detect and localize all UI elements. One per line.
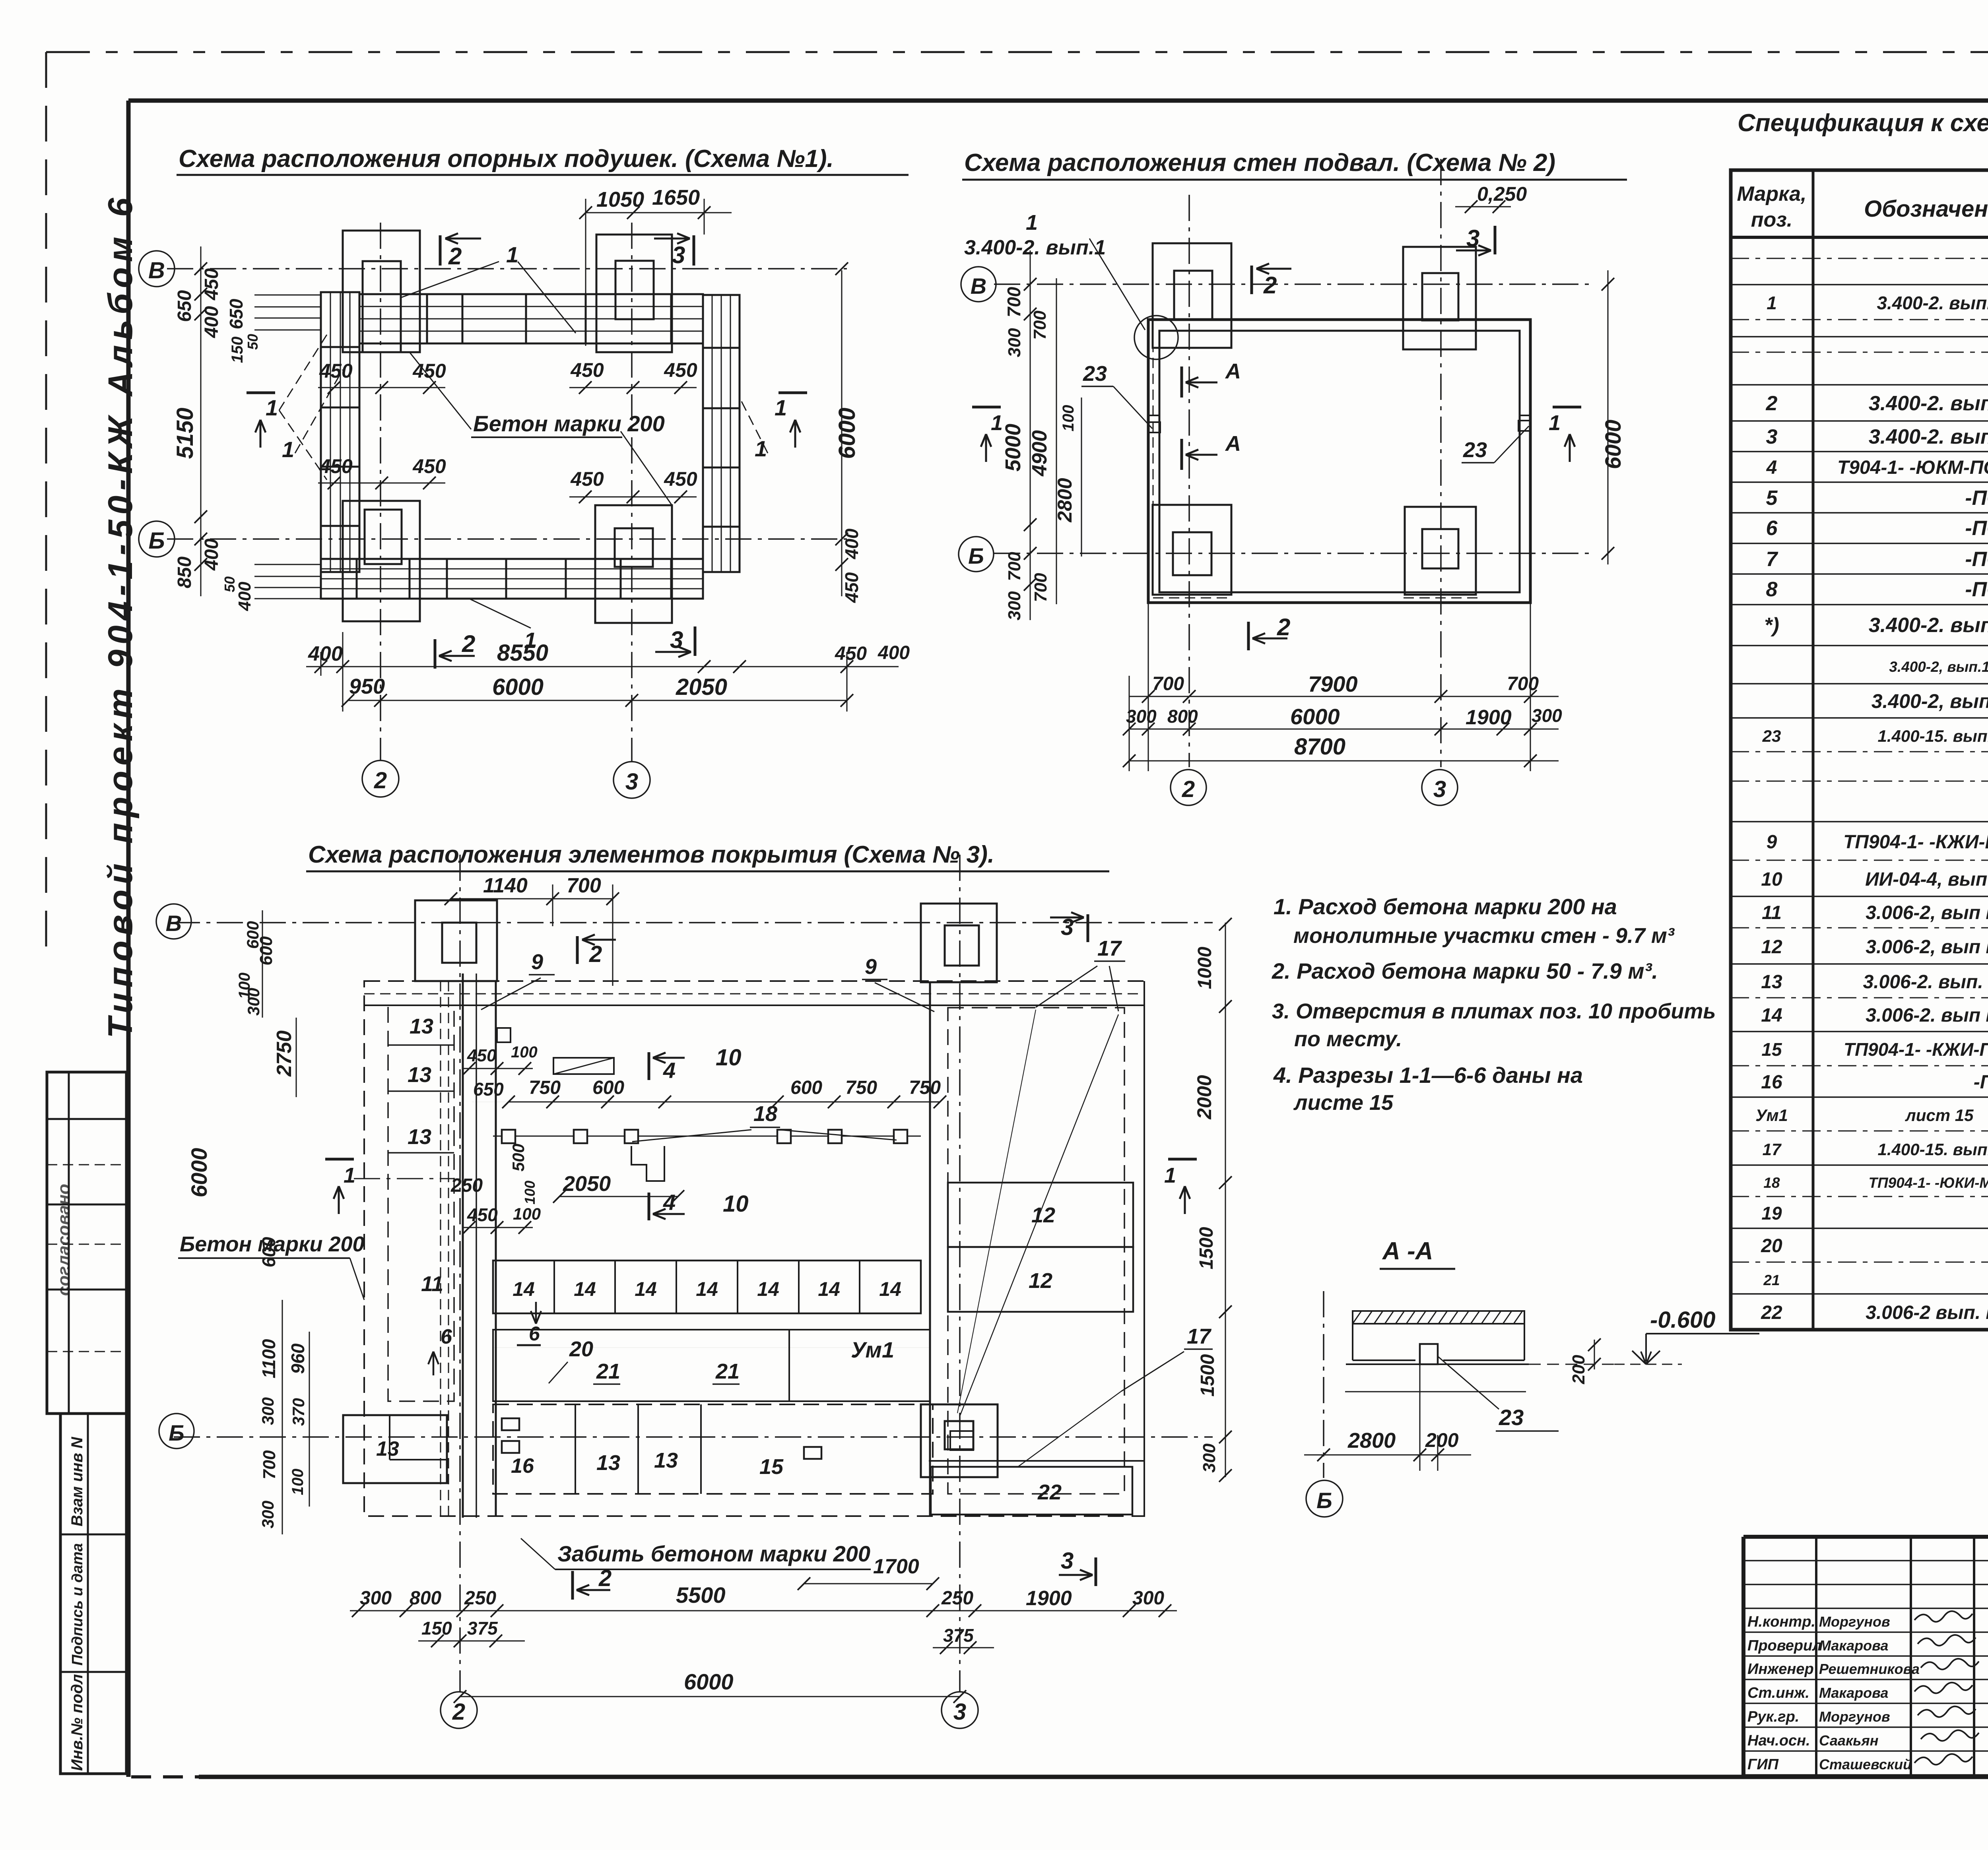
svg-text:14: 14 xyxy=(635,1278,657,1300)
svg-text:300: 300 xyxy=(1005,591,1024,621)
svg-text:3.400-2. вып.1: 3.400-2. вып.1 xyxy=(1869,425,1988,448)
svg-text:23: 23 xyxy=(1762,727,1781,745)
outer dashed trim border xyxy=(46,51,1988,53)
svg-text:8: 8 xyxy=(1766,578,1778,601)
svg-text:-ПС2-1-3: -ПС2-1-3 xyxy=(1965,548,1988,571)
svg-text:20: 20 xyxy=(569,1337,593,1361)
svg-text:400: 400 xyxy=(201,539,222,571)
svg-text:300: 300 xyxy=(244,988,263,1016)
svg-text:1: 1 xyxy=(775,395,787,420)
svg-text:450: 450 xyxy=(841,572,862,603)
svg-text:ТП904-1- -ЮКИ-МС4: ТП904-1- -ЮКИ-МС4 xyxy=(1868,1175,1988,1191)
svg-text:Решетникова: Решетникова xyxy=(1819,1661,1920,1677)
svg-text:2: 2 xyxy=(374,768,387,793)
svg-text:650: 650 xyxy=(174,290,195,322)
svg-text:1500: 1500 xyxy=(1196,1227,1217,1269)
svg-text:150: 150 xyxy=(421,1618,452,1639)
svg-text:450: 450 xyxy=(319,455,353,477)
svg-text:300: 300 xyxy=(1005,328,1024,357)
svg-text:3: 3 xyxy=(672,242,685,268)
svg-text:750: 750 xyxy=(529,1077,561,1098)
svg-text:12: 12 xyxy=(1029,1269,1052,1293)
svg-text:6000: 6000 xyxy=(186,1148,212,1198)
svg-text:10: 10 xyxy=(723,1191,749,1217)
svg-text:700: 700 xyxy=(1152,673,1184,694)
svg-text:300: 300 xyxy=(258,1501,277,1528)
svg-text:16: 16 xyxy=(511,1454,534,1478)
svg-text:5500: 5500 xyxy=(676,1582,726,1608)
svg-text:1: 1 xyxy=(1549,411,1561,435)
svg-text:19: 19 xyxy=(1761,1203,1782,1224)
svg-text:-ПС2-1-4: -ПС2-1-4 xyxy=(1965,578,1988,601)
svg-text:1900: 1900 xyxy=(1466,706,1512,729)
svg-text:17: 17 xyxy=(1187,1325,1212,1348)
svg-text:9: 9 xyxy=(1767,832,1777,853)
svg-text:Спецификация к схемам распо: Спецификация к схемам расположения элеме… xyxy=(1738,109,1988,137)
svg-text:800: 800 xyxy=(410,1588,441,1609)
svg-text:Забить бетоном марки 200: Забить бетоном марки 200 xyxy=(557,1541,870,1566)
svg-text:3.006-2 вып. II-2: 3.006-2 вып. II-2 xyxy=(1866,1302,1988,1323)
svg-text:23: 23 xyxy=(1499,1405,1524,1430)
svg-text:450: 450 xyxy=(412,360,446,382)
svg-text:600: 600 xyxy=(790,1077,822,1098)
svg-text:3.400-2. вып.1: 3.400-2. вып.1 xyxy=(964,236,1106,259)
svg-text:15: 15 xyxy=(1761,1039,1782,1060)
svg-text:250: 250 xyxy=(464,1588,496,1609)
svg-text:3.400-2. вып.1: 3.400-2. вып.1 xyxy=(1869,614,1988,637)
svg-text:3.006-2, вып II-2: 3.006-2, вып II-2 xyxy=(1866,937,1988,958)
svg-text:Взам инв N: Взам инв N xyxy=(68,1437,86,1526)
svg-text:200: 200 xyxy=(1569,1355,1588,1385)
svg-text:8700: 8700 xyxy=(1294,734,1345,760)
svg-text:650: 650 xyxy=(226,299,247,329)
svg-text:2: 2 xyxy=(448,243,462,270)
svg-text:6: 6 xyxy=(1766,517,1778,540)
main drawing frame xyxy=(128,99,1988,103)
svg-text:12: 12 xyxy=(1761,937,1782,958)
svg-text:Бетон марки 200: Бетон марки 200 xyxy=(473,411,665,436)
svg-text:поз.: поз. xyxy=(1751,208,1793,231)
svg-text:6: 6 xyxy=(441,1325,452,1348)
svg-text:0,250: 0,250 xyxy=(1477,183,1527,205)
svg-text:14: 14 xyxy=(513,1278,535,1300)
svg-text:700: 700 xyxy=(1507,673,1539,694)
svg-text:1000: 1000 xyxy=(1194,946,1215,989)
svg-text:16: 16 xyxy=(1761,1072,1782,1093)
svg-text:100: 100 xyxy=(1060,405,1077,432)
svg-text:2750: 2750 xyxy=(273,1030,296,1077)
svg-text:1. Расход бетона марки 200: 1. Расход бетона марки 200 на xyxy=(1274,894,1617,919)
svg-text:Схема расположения опорных: Схема расположения опорных подушек. (Схе… xyxy=(179,145,834,173)
svg-text:1100: 1100 xyxy=(258,1339,279,1378)
svg-text:3.400-2. вып.1: 3.400-2. вып.1 xyxy=(1877,293,1988,313)
svg-text:6: 6 xyxy=(529,1323,540,1345)
svg-text:750: 750 xyxy=(909,1077,941,1098)
svg-text:3: 3 xyxy=(625,769,638,795)
svg-text:2: 2 xyxy=(462,630,475,657)
svg-text:1: 1 xyxy=(266,395,278,420)
svg-text:13: 13 xyxy=(596,1451,620,1475)
svg-text:21: 21 xyxy=(1763,1272,1780,1288)
svg-text:1: 1 xyxy=(506,242,518,267)
svg-text:22: 22 xyxy=(1761,1302,1782,1323)
svg-text:100: 100 xyxy=(511,1043,538,1061)
svg-text:15: 15 xyxy=(759,1455,784,1479)
svg-text:ТП904-1- -КЖИ-Р1СБ: ТП904-1- -КЖИ-Р1СБ xyxy=(1843,832,1988,853)
svg-text:3.400-2. вып.1: 3.400-2. вып.1 xyxy=(1869,392,1988,415)
svg-text:3: 3 xyxy=(1061,1548,1074,1574)
svg-text:13: 13 xyxy=(1761,972,1782,993)
svg-text:4: 4 xyxy=(663,1190,676,1215)
svg-text:400: 400 xyxy=(235,582,254,611)
svg-text:1.400-15. вып.1: 1.400-15. вып.1 xyxy=(1877,727,1988,745)
svg-text:11: 11 xyxy=(421,1272,443,1296)
svg-text:370: 370 xyxy=(289,1398,308,1426)
svg-text:8550: 8550 xyxy=(497,640,548,666)
svg-text:13: 13 xyxy=(410,1014,433,1038)
svg-text:450: 450 xyxy=(319,360,353,382)
svg-text:10: 10 xyxy=(1761,869,1782,890)
svg-text:2: 2 xyxy=(598,1565,612,1591)
svg-text:Инв.№ подл: Инв.№ подл xyxy=(68,1674,86,1771)
svg-text:ТП904-1- -КЖИ-П7-3-1: ТП904-1- -КЖИ-П7-3-1 xyxy=(1844,1039,1988,1060)
svg-text:лист 15: лист 15 xyxy=(1905,1106,1974,1125)
svg-text:Т904-1- -ЮКМ-ПС1-1-1: Т904-1- -ЮКМ-ПС1-1-1 xyxy=(1837,457,1988,478)
svg-text:В: В xyxy=(148,258,165,283)
svg-text:4. Разрезы 1-1—6-6 даны на: 4. Разрезы 1-1—6-6 даны на xyxy=(1273,1063,1583,1088)
svg-text:14: 14 xyxy=(818,1278,840,1300)
svg-text:300: 300 xyxy=(1200,1443,1219,1473)
svg-text:Схема расположения элементов: Схема расположения элементов покрытия (С… xyxy=(308,841,994,868)
svg-text:В: В xyxy=(971,273,986,299)
svg-text:13: 13 xyxy=(408,1125,431,1149)
svg-text:12: 12 xyxy=(1031,1203,1055,1227)
svg-text:3.006-2. вып II-2: 3.006-2. вып II-2 xyxy=(1866,1005,1988,1026)
svg-text:1: 1 xyxy=(1164,1164,1176,1187)
svg-text:13: 13 xyxy=(408,1063,431,1087)
svg-text:Макарова: Макарова xyxy=(1819,1685,1888,1701)
svg-text:3: 3 xyxy=(1766,425,1778,448)
svg-text:1: 1 xyxy=(1026,211,1038,235)
svg-text:600: 600 xyxy=(592,1077,624,1098)
svg-text:6000: 6000 xyxy=(1290,704,1340,729)
svg-text:2: 2 xyxy=(1263,272,1277,299)
svg-text:9: 9 xyxy=(531,950,543,974)
svg-text:1500: 1500 xyxy=(1197,1354,1218,1396)
svg-text:13: 13 xyxy=(654,1449,678,1472)
svg-text:1: 1 xyxy=(1767,293,1777,313)
svg-text:850: 850 xyxy=(174,557,195,588)
svg-text:Моргунов: Моргунов xyxy=(1819,1708,1890,1725)
svg-text:ИИ-04-4, вып 19: ИИ-04-4, вып 19 xyxy=(1865,869,1988,890)
svg-text:1900: 1900 xyxy=(1026,1587,1072,1610)
svg-text:450: 450 xyxy=(835,643,867,664)
svg-text:14: 14 xyxy=(696,1278,718,1300)
svg-text:Схема расположения стен под: Схема расположения стен подвал. (Схема №… xyxy=(964,149,1555,176)
svg-text:Н.контр.: Н.контр. xyxy=(1747,1613,1815,1630)
svg-text:Сташевский: Сташевский xyxy=(1819,1756,1912,1772)
svg-text:21: 21 xyxy=(596,1359,620,1383)
svg-text:450: 450 xyxy=(201,268,222,301)
svg-text:Типовой проект 904-1-50-КЖ: Типовой проект 904-1-50-КЖ Альбом 6 xyxy=(101,193,140,1038)
svg-text:В: В xyxy=(166,911,182,936)
svg-text:Б: Б xyxy=(968,543,984,568)
svg-text:450: 450 xyxy=(570,359,604,381)
svg-text:-П7д-3-1: -П7д-3-1 xyxy=(1974,1072,1988,1093)
svg-text:монолитные участки стен - 9.: монолитные участки стен - 9.7 м³ xyxy=(1293,924,1675,948)
svg-text:Саакьян: Саакьян xyxy=(1819,1732,1879,1749)
svg-text:1.400-15. вып.1: 1.400-15. вып.1 xyxy=(1877,1140,1988,1159)
svg-text:100: 100 xyxy=(289,1469,307,1495)
svg-text:5150: 5150 xyxy=(172,407,198,459)
svg-text:3: 3 xyxy=(1061,914,1074,940)
svg-text:400: 400 xyxy=(841,528,862,559)
svg-text:А: А xyxy=(1225,432,1241,456)
svg-text:700: 700 xyxy=(1004,287,1024,317)
svg-text:Подпись и дата: Подпись и дата xyxy=(69,1543,86,1666)
svg-text:18: 18 xyxy=(1763,1175,1780,1191)
svg-text:600: 600 xyxy=(243,921,262,949)
svg-text:100: 100 xyxy=(513,1204,541,1223)
svg-text:листе 15: листе 15 xyxy=(1293,1091,1394,1115)
svg-text:Проверил: Проверил xyxy=(1747,1637,1822,1654)
svg-text:Рук.гр.: Рук.гр. xyxy=(1747,1708,1799,1725)
svg-text:6000: 6000 xyxy=(834,407,860,459)
svg-text:по месту.: по месту. xyxy=(1294,1027,1402,1051)
svg-text:450: 450 xyxy=(570,468,604,490)
svg-text:400: 400 xyxy=(308,642,343,665)
svg-text:1: 1 xyxy=(755,436,767,461)
svg-text:450: 450 xyxy=(664,468,697,490)
svg-text:Ст.инж.: Ст.инж. xyxy=(1747,1685,1809,1701)
svg-text:Инженер: Инженер xyxy=(1747,1661,1814,1677)
svg-text:400: 400 xyxy=(201,306,222,338)
svg-text:150: 150 xyxy=(229,337,246,363)
svg-text:300: 300 xyxy=(1532,705,1562,726)
svg-text:1700: 1700 xyxy=(873,1555,919,1578)
svg-text:Ум1: Ум1 xyxy=(1755,1106,1788,1125)
svg-text:ГИП: ГИП xyxy=(1747,1756,1779,1773)
svg-text:Моргунов: Моргунов xyxy=(1819,1613,1890,1630)
svg-text:22: 22 xyxy=(1037,1480,1062,1504)
svg-text:700: 700 xyxy=(1030,310,1050,340)
svg-text:450: 450 xyxy=(467,1204,498,1225)
svg-text:4900: 4900 xyxy=(1028,430,1051,477)
svg-text:2050: 2050 xyxy=(563,1172,611,1196)
svg-text:14: 14 xyxy=(879,1278,901,1300)
svg-text:3. Отверстия в плитах поз.: 3. Отверстия в плитах поз. 10 пробить xyxy=(1272,999,1716,1023)
svg-text:3.006-2. вып. II-2: 3.006-2. вып. II-2 xyxy=(1863,972,1988,993)
svg-text:2: 2 xyxy=(1766,392,1778,415)
svg-text:14: 14 xyxy=(574,1278,596,1300)
svg-text:5: 5 xyxy=(1766,487,1778,510)
svg-text:250: 250 xyxy=(450,1175,483,1196)
svg-text:-ПС1-1-2: -ПС1-1-2 xyxy=(1965,487,1988,510)
svg-text:375: 375 xyxy=(467,1618,498,1639)
svg-text:Б: Б xyxy=(1316,1488,1332,1513)
svg-text:23: 23 xyxy=(1463,438,1487,462)
svg-text:960: 960 xyxy=(287,1343,308,1374)
svg-text:-0.600: -0.600 xyxy=(1650,1307,1715,1333)
svg-text:3: 3 xyxy=(1433,776,1446,802)
svg-text:250: 250 xyxy=(941,1588,973,1609)
svg-text:А -А: А -А xyxy=(1382,1237,1433,1265)
svg-text:14: 14 xyxy=(1761,1005,1782,1026)
svg-text:600: 600 xyxy=(258,1237,279,1267)
svg-text:400: 400 xyxy=(878,642,910,663)
svg-text:3: 3 xyxy=(1466,225,1479,252)
svg-text:6000: 6000 xyxy=(1600,420,1625,469)
svg-text:2: 2 xyxy=(1277,614,1290,640)
svg-text:Обозначение: Обозначение xyxy=(1864,196,1988,222)
svg-text:3.006-2, вып II-2: 3.006-2, вып II-2 xyxy=(1866,902,1988,923)
svg-text:450: 450 xyxy=(664,359,697,381)
svg-text:9: 9 xyxy=(865,955,877,979)
svg-text:3: 3 xyxy=(953,1699,966,1725)
svg-text:Б: Б xyxy=(169,1420,184,1445)
svg-text:3.400-2, вып.1: 3.400-2, вып.1 xyxy=(1872,690,1988,712)
svg-text:20: 20 xyxy=(1761,1235,1782,1257)
svg-text:1140: 1140 xyxy=(483,874,528,897)
svg-text:6000: 6000 xyxy=(492,674,544,700)
svg-text:700: 700 xyxy=(1005,552,1024,581)
svg-text:450: 450 xyxy=(467,1046,497,1065)
svg-text:3: 3 xyxy=(670,626,683,653)
svg-text:1: 1 xyxy=(344,1164,355,1187)
svg-text:300: 300 xyxy=(258,1397,277,1425)
svg-text:300: 300 xyxy=(1132,1588,1164,1609)
svg-text:750: 750 xyxy=(845,1077,877,1098)
svg-text:Макарова: Макарова xyxy=(1819,1637,1888,1654)
svg-text:17: 17 xyxy=(1097,937,1122,960)
svg-text:2050: 2050 xyxy=(676,674,727,700)
svg-text:2: 2 xyxy=(1182,776,1195,802)
svg-text:300: 300 xyxy=(1126,706,1157,727)
svg-text:согласовано: согласовано xyxy=(54,1184,74,1296)
svg-text:-ПС1-1-3: -ПС1-1-3 xyxy=(1965,517,1988,540)
svg-text:11: 11 xyxy=(1762,902,1782,923)
svg-text:10: 10 xyxy=(716,1045,742,1070)
svg-text:А: А xyxy=(1225,359,1241,383)
svg-text:450: 450 xyxy=(412,455,446,477)
svg-text:300: 300 xyxy=(360,1588,392,1609)
svg-text:13: 13 xyxy=(376,1437,399,1460)
svg-text:700: 700 xyxy=(260,1450,279,1480)
svg-text:1050: 1050 xyxy=(596,188,644,211)
svg-text:Ум1: Ум1 xyxy=(851,1337,894,1362)
svg-text:800: 800 xyxy=(1167,706,1198,727)
svg-text:4: 4 xyxy=(1766,457,1777,478)
svg-text:17: 17 xyxy=(1763,1140,1782,1159)
svg-text:Б: Б xyxy=(148,528,165,554)
svg-text:7900: 7900 xyxy=(1308,671,1358,696)
svg-text:*): *) xyxy=(1764,614,1779,637)
svg-text:375: 375 xyxy=(943,1625,974,1646)
svg-text:50: 50 xyxy=(245,334,261,350)
svg-text:1650: 1650 xyxy=(652,186,700,209)
svg-text:950: 950 xyxy=(349,675,385,698)
svg-text:2800: 2800 xyxy=(1347,1429,1396,1453)
svg-text:6000: 6000 xyxy=(684,1669,734,1694)
svg-text:Марка,: Марка, xyxy=(1737,182,1807,206)
svg-text:21: 21 xyxy=(715,1359,740,1383)
svg-text:200: 200 xyxy=(1425,1429,1459,1451)
svg-text:2. Расход бетона марки 50 -: 2. Расход бетона марки 50 - 7.9 м³. xyxy=(1272,958,1658,983)
svg-text:2: 2 xyxy=(589,941,602,967)
svg-text:1: 1 xyxy=(282,437,294,462)
svg-text:700: 700 xyxy=(567,874,601,897)
svg-text:Нач.осн.: Нач.осн. xyxy=(1747,1732,1810,1749)
svg-text:100: 100 xyxy=(522,1181,538,1204)
svg-text:7: 7 xyxy=(1766,548,1778,571)
svg-text:500: 500 xyxy=(509,1144,528,1171)
svg-text:5000: 5000 xyxy=(1001,424,1025,471)
svg-text:23: 23 xyxy=(1083,362,1107,386)
svg-text:4: 4 xyxy=(663,1058,676,1083)
svg-text:2000: 2000 xyxy=(1193,1075,1215,1119)
svg-text:650: 650 xyxy=(473,1079,504,1100)
svg-text:3.400-2, вып.1: 3.400-2, вып.1 xyxy=(1889,659,1988,675)
svg-text:700: 700 xyxy=(1031,573,1050,602)
svg-text:14: 14 xyxy=(757,1278,779,1300)
